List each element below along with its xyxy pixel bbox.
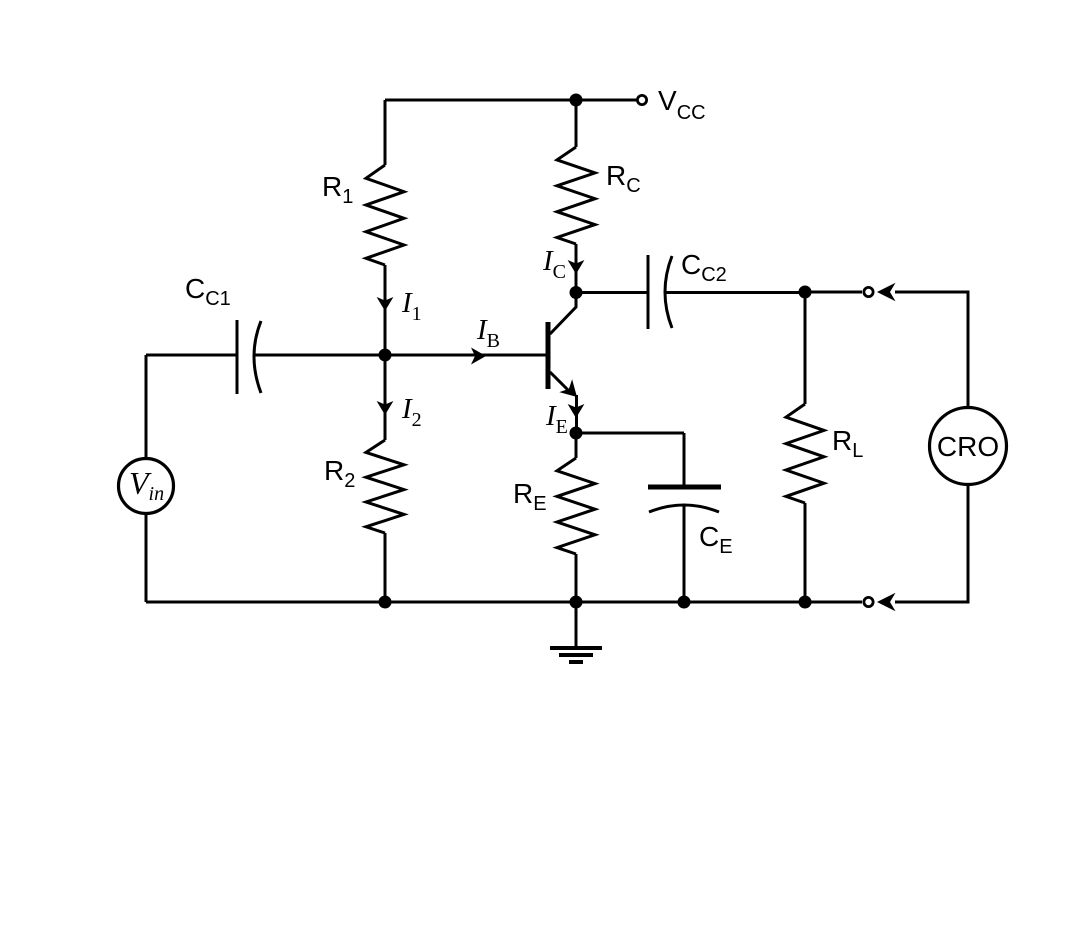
capacitor CC2 curved plate <box>665 256 672 328</box>
transistor Q1 base bar <box>546 322 551 389</box>
wire R1 bottom stub <box>384 265 387 355</box>
node CE bottom junction <box>678 596 691 609</box>
svg-text:CC1: CC1 <box>185 273 231 310</box>
resistor R1 <box>366 165 404 265</box>
node collector junction <box>570 286 583 299</box>
transistor Q1 emitter lead <box>550 372 569 391</box>
svg-text:R2: R2 <box>324 455 355 492</box>
node emitter junction <box>570 427 583 440</box>
top probe arrow <box>877 283 896 302</box>
source Vin circle <box>119 459 174 514</box>
capacitor CE flat plate <box>648 485 721 490</box>
arrow IB <box>471 348 486 365</box>
capacitor CC1 flat plate <box>236 320 239 394</box>
svg-text:CRO: CRO <box>937 431 999 462</box>
transistor Q1 emitter arrow <box>559 379 577 397</box>
node base junction <box>379 349 392 362</box>
wire R2 bottom stub <box>384 533 387 602</box>
resistor RC <box>557 147 595 244</box>
svg-text:RC: RC <box>606 160 641 197</box>
bottom probe terminal open circle <box>864 597 873 606</box>
wire Vcc stub <box>576 99 637 102</box>
svg-text:RE: RE <box>513 478 547 515</box>
svg-text:CE: CE <box>699 521 733 558</box>
transistor Q1 collector lead <box>550 293 576 335</box>
node Vcc junction <box>570 94 583 107</box>
node RL bottom junction <box>799 596 812 609</box>
svg-text:RL: RL <box>832 425 863 462</box>
wire RE bottom stub <box>575 554 578 602</box>
wire CC2 to RL node <box>664 291 805 294</box>
wire CE bottom stub <box>683 506 686 602</box>
svg-text:Vin: Vin <box>129 465 164 505</box>
svg-text:IC: IC <box>542 245 566 283</box>
wire RL bottom stub <box>804 503 807 602</box>
wire collector to CC2 <box>576 291 648 294</box>
arrow I1 <box>377 297 394 311</box>
wire bottom rail <box>146 601 862 604</box>
svg-text:I1: I1 <box>401 287 422 325</box>
wire top probe to CRO corner <box>895 292 968 408</box>
capacitor CC2 flat plate <box>647 255 650 329</box>
svg-text:VCC: VCC <box>658 85 706 124</box>
wire emitter to node <box>575 395 578 433</box>
resistor R2 <box>366 440 404 533</box>
svg-text:CC2: CC2 <box>681 249 727 286</box>
node RE bottom junction <box>570 596 583 609</box>
wire RL node to top probe terminal <box>805 291 862 294</box>
svg-text:I2: I2 <box>401 393 422 431</box>
svg-text:IB: IB <box>476 314 500 352</box>
node R2 bottom junction <box>379 596 392 609</box>
ground <box>550 648 602 662</box>
wire base node to transistor <box>385 354 546 357</box>
svg-text:IE: IE <box>545 400 568 438</box>
capacitor CE curved plate <box>649 505 719 512</box>
wire Vin top stub <box>145 355 148 459</box>
resistor RE <box>557 458 595 554</box>
wire R1 top stub <box>384 100 387 165</box>
wire I2 segment <box>384 355 387 440</box>
wire RE top stub <box>575 433 578 458</box>
wire CE top stub <box>683 433 686 487</box>
wire CRO bottom to probe <box>895 484 968 602</box>
arrow IE <box>568 404 585 418</box>
wire emitter to CE <box>576 432 684 435</box>
node RL top junction <box>799 286 812 299</box>
top probe terminal open circle <box>864 287 873 296</box>
arrow IC <box>568 260 585 274</box>
wire RL top stub <box>804 292 807 404</box>
ground stem <box>575 602 578 648</box>
CRO circle <box>930 408 1007 485</box>
arrow I2 <box>377 401 394 415</box>
wire CC1 to base node <box>253 354 385 357</box>
wire RC top stub <box>575 100 578 147</box>
Vcc terminal open circle <box>637 95 646 104</box>
svg-text:R1: R1 <box>322 171 353 208</box>
wire Vin bottom stub <box>145 513 148 602</box>
resistor RL <box>786 404 824 503</box>
wire top rail <box>385 99 576 102</box>
bottom probe arrow <box>877 593 896 612</box>
capacitor CC1 curved plate <box>254 321 261 393</box>
wire CC1 left <box>146 354 237 357</box>
wire RC bottom stub <box>575 244 578 293</box>
